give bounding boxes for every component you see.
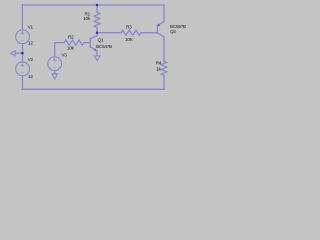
voltage source V2: [16, 62, 30, 76]
svg-text:V2: V2: [28, 57, 34, 62]
voltage source V1: [16, 30, 30, 44]
wire R4 bottom to rail: [163, 75, 165, 89]
resistor R1: [94, 12, 100, 27]
wire top rail (+12V): [22, 4, 164, 6]
transistor Q2 BC557B: [157, 22, 164, 37]
junction node Q1 collector/R3: [96, 32, 98, 34]
svg-text:Q1: Q1: [98, 38, 104, 43]
wire V3 top to R2 left: [55, 43, 64, 57]
svg-text:V3: V3: [61, 53, 67, 58]
ground at Q1 emitter: [94, 56, 100, 61]
resistor R2: [64, 40, 84, 45]
svg-text:12: 12: [28, 74, 33, 79]
svg-text:BC547B: BC547B: [96, 44, 112, 49]
wire V1 bottom to V2 top: [22, 44, 24, 62]
svg-text:Q2: Q2: [170, 29, 176, 34]
svg-text:10k: 10k: [67, 46, 75, 51]
resistor R4: [161, 61, 166, 75]
wire V2 bottom to rail: [22, 76, 24, 90]
svg-text:V1: V1: [28, 25, 34, 30]
wire R1 bottom to Q1 collector: [96, 28, 98, 36]
wire R2 right to Q1 base: [84, 42, 90, 44]
resistor R3: [121, 30, 141, 35]
svg-text:R3: R3: [126, 25, 132, 30]
junction node top rail/R1: [96, 4, 98, 6]
junction node V1/V2/ground: [21, 52, 23, 54]
wire Q2 collector to R4: [163, 37, 165, 61]
svg-text:10K: 10K: [125, 37, 134, 42]
wire Q2 emitter to top rail: [163, 5, 165, 22]
svg-text:12: 12: [28, 41, 33, 46]
ground at V3: [52, 74, 58, 79]
svg-text:10k: 10k: [83, 16, 91, 21]
wire ground stub: [15, 52, 22, 54]
svg-text:R2: R2: [68, 35, 74, 40]
svg-text:R4: R4: [156, 61, 162, 66]
wire V3 bottom stem: [54, 71, 56, 74]
transistor Q1 BC547B: [90, 36, 97, 51]
wire R1 top tap: [96, 5, 98, 12]
wire left vertical to V1 top: [21, 5, 23, 30]
wire Q1 emitter stem: [96, 51, 98, 56]
voltage source V3: [48, 57, 62, 71]
wire R3 right to Q2 base: [141, 32, 157, 34]
ground (left-pointing) at V1/V2 midpoint: [11, 51, 16, 56]
wire Q1 collector to R3: [97, 32, 121, 34]
wire bottom rail (-12V): [22, 88, 164, 90]
